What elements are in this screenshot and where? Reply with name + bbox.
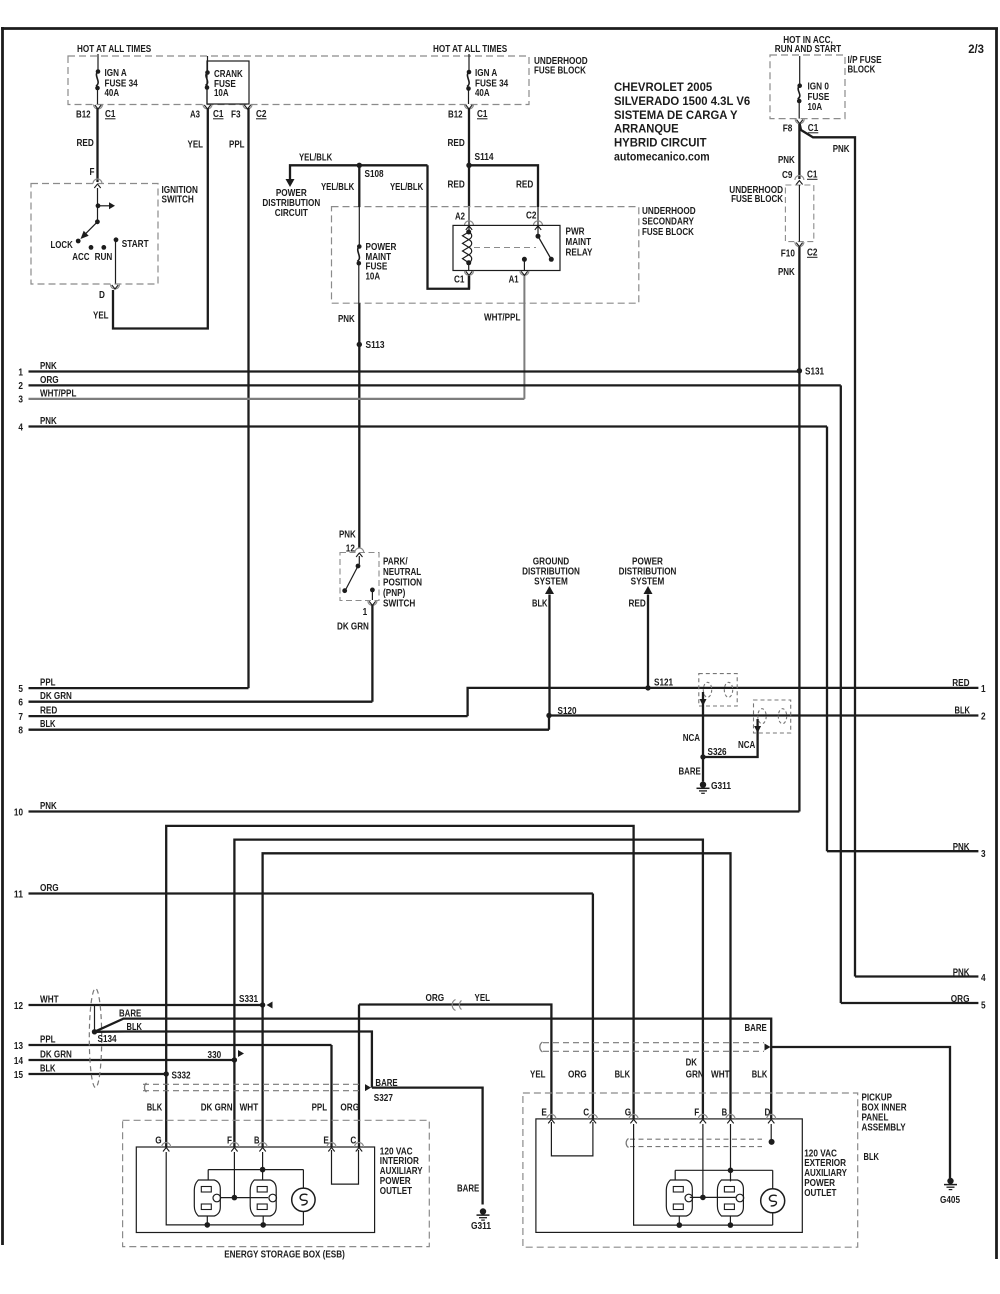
svg-text:RED: RED [40, 705, 58, 717]
svg-text:PPL: PPL [229, 139, 245, 151]
connector B12/C1 below fuse IGN A [76, 105, 116, 121]
svg-text:S131: S131 [805, 366, 824, 378]
HOT AT ALL TIMES label left [77, 43, 151, 55]
wire PNK F8 down to C9 [778, 124, 799, 179]
wire START to D [115, 240, 117, 284]
fuse IGN A FUSE 34 40A second [466, 67, 508, 104]
HOT IN ACC RUN AND START label [775, 34, 842, 55]
exterior receptacle 1 [666, 1180, 692, 1228]
pickup box inner panel dashed box [523, 1093, 858, 1247]
svg-text:BARE: BARE [119, 1007, 141, 1019]
wire NCA from BLK connector to S326 [703, 719, 761, 757]
svg-text:OUTLET: OUTLET [380, 1185, 413, 1197]
ip fuse block dashed box [770, 55, 845, 119]
svg-text:PNK: PNK [778, 266, 795, 278]
svg-text:PPL: PPL [40, 1034, 56, 1046]
interior outlet lamp [292, 1188, 315, 1211]
relay dashed actuator link [474, 247, 536, 249]
svg-text:S120: S120 [558, 705, 577, 717]
exterior outlet neutral bus [675, 1124, 773, 1189]
relay connector A1 [509, 271, 529, 286]
svg-text:1: 1 [18, 366, 23, 378]
connector pin 1 PNP switch [363, 601, 377, 618]
svg-text:10: 10 [14, 806, 23, 818]
interior outlet box [136, 1147, 374, 1233]
right wire 1 RED label [952, 677, 986, 695]
svg-text:C1: C1 [454, 274, 465, 286]
relay connector C1 [454, 263, 474, 286]
svg-text:PNK: PNK [833, 143, 850, 155]
svg-text:2: 2 [18, 380, 23, 392]
relay connector C2 [526, 210, 543, 230]
svg-text:HOT AT ALL TIMES: HOT AT ALL TIMES [433, 43, 507, 55]
wire WHT interior B to exterior B [263, 853, 731, 1119]
svg-text:BLK: BLK [40, 1063, 56, 1075]
wire 12 WHT [14, 994, 263, 1012]
GROUND DISTRIBUTION SYSTEM label and arrow [522, 556, 580, 716]
connector F3/C2 [231, 105, 267, 121]
svg-text:DK GRN: DK GRN [201, 1102, 233, 1114]
svg-text:WHT: WHT [240, 1102, 259, 1114]
svg-text:1: 1 [363, 606, 368, 618]
fuse CRANK FUSE 10A [205, 68, 243, 104]
connector C9/C1 [782, 169, 818, 185]
svg-text:DK GRN: DK GRN [40, 690, 72, 702]
svg-text:S121: S121 [654, 677, 673, 689]
connector B12/C1 below fuse 2 [448, 105, 488, 121]
svg-text:PPL: PPL [312, 1102, 328, 1114]
wire RED S114 branch to relay C2 [469, 165, 538, 236]
wire BARE S327 to ground G311 [372, 1088, 483, 1205]
title text block [614, 80, 750, 164]
svg-text:SISTEMA DE CARGA Y: SISTEMA DE CARGA Y [614, 108, 738, 122]
wire 2 ORG [18, 374, 978, 1003]
svg-text:C2: C2 [256, 108, 267, 120]
svg-text:DK GRN: DK GRN [337, 621, 369, 633]
svg-text:E: E [541, 1107, 547, 1119]
exterior outlet wire color labels [530, 1057, 768, 1081]
svg-text:F8: F8 [783, 123, 793, 135]
wire 7 RED [18, 688, 978, 723]
svg-text:2: 2 [981, 711, 986, 723]
connector F8/C1 [783, 119, 819, 134]
wire 14 DK GRN [14, 1049, 235, 1067]
wire 15 BLK [14, 1063, 166, 1081]
svg-text:SYSTEM: SYSTEM [631, 576, 665, 588]
svg-text:RELAY: RELAY [566, 246, 593, 258]
interior outlet ground bus [166, 1152, 303, 1225]
svg-text:NCA: NCA [738, 739, 756, 751]
svg-text:FUSE BLOCK: FUSE BLOCK [731, 193, 783, 205]
wire 13 PPL [14, 1034, 332, 1148]
splice S131 [797, 366, 825, 378]
svg-text:ORG: ORG [340, 1102, 359, 1114]
svg-text:F: F [227, 1135, 232, 1147]
wire YEL ignition D to fuse A3 [93, 108, 208, 329]
exterior outlet ground bus [634, 1124, 773, 1225]
exterior receptacle 2 [717, 1180, 743, 1228]
wire relay C1 down to YEL/BLK branch [468, 276, 470, 289]
wire feed into fuse IGN A 2 [468, 54, 470, 72]
PWR MAINT RELAY label [566, 225, 593, 258]
right wire 2 BLK label [955, 705, 986, 723]
svg-text:S332: S332 [172, 1070, 191, 1082]
ignition switch node with right arrow [96, 202, 115, 209]
svg-text:330: 330 [208, 1049, 222, 1061]
svg-text:RED: RED [516, 179, 534, 191]
svg-text:S327: S327 [374, 1092, 393, 1104]
relay contact to A1 [522, 257, 527, 271]
underhood secondary fuse block label [642, 205, 696, 238]
wire BLK interior G to exterior G [166, 826, 633, 1119]
underhood fuse block small dashed box [785, 185, 813, 242]
splice S332 [164, 1070, 191, 1082]
splice S113 [357, 339, 385, 351]
svg-text:ORG: ORG [568, 1069, 587, 1081]
svg-text:PNK: PNK [339, 529, 356, 541]
contact RUN [95, 245, 113, 263]
svg-text:C1: C1 [808, 122, 819, 134]
inline connector on RED wire [699, 674, 737, 706]
wire YEL/BLK horizontal with arrow to power distribution circuit [286, 152, 428, 188]
wire interior pin F riser [233, 1060, 235, 1147]
wire BARE S326 to ground G311 [679, 757, 704, 782]
wire interior pin B riser [261, 1005, 263, 1147]
splice S326 [700, 746, 726, 760]
exterior outlet lamp [761, 1189, 785, 1213]
label YEL under A3 [188, 139, 204, 151]
svg-text:BARE: BARE [745, 1022, 767, 1034]
wire YEL/BLK branch to relay C1 [428, 165, 470, 288]
svg-text:S134: S134 [98, 1033, 117, 1045]
svg-text:A1: A1 [509, 274, 519, 286]
interior receptacle 2 [250, 1180, 276, 1228]
svg-text:PPL: PPL [40, 677, 56, 689]
interior outlet neutral bus [208, 1152, 303, 1188]
splice S108 [357, 163, 384, 180]
ignition switch label [162, 184, 198, 206]
interior outlet hot bus [221, 1152, 268, 1200]
svg-text:C1: C1 [213, 108, 224, 120]
svg-text:PNK: PNK [40, 800, 57, 812]
svg-text:12: 12 [14, 1000, 23, 1012]
svg-text:PNK: PNK [338, 313, 355, 325]
wire ORG interior pin C riser [358, 1005, 360, 1148]
wire RED S114 to relay A2 [448, 165, 470, 232]
svg-text:5: 5 [981, 1000, 986, 1012]
svg-text:DK GRN: DK GRN [40, 1049, 72, 1061]
svg-text:SWITCH: SWITCH [162, 194, 194, 206]
svg-text:WHT/PPL: WHT/PPL [484, 312, 521, 324]
svg-text:6: 6 [18, 697, 23, 709]
svg-text:DK: DK [686, 1057, 698, 1069]
splice S331 [239, 993, 273, 1009]
svg-text:4: 4 [981, 972, 986, 984]
svg-text:BLOCK: BLOCK [848, 64, 876, 76]
svg-text:A3: A3 [190, 109, 200, 121]
svg-text:FUSE BLOCK: FUSE BLOCK [534, 65, 586, 77]
connector oval S134 [89, 989, 101, 1088]
connector F10/C2 [781, 242, 818, 259]
wire BLK from S134 to S327 [95, 1021, 372, 1088]
wire 4 PNK [18, 415, 978, 851]
interior outlet wire color labels [147, 1102, 359, 1114]
svg-text:PNK: PNK [40, 415, 57, 427]
svg-text:YEL/BLK: YEL/BLK [321, 181, 355, 193]
svg-text:SWITCH: SWITCH [383, 598, 415, 610]
wire DK GRN PNP to wire 6 [337, 605, 372, 702]
svg-text:RED: RED [448, 179, 466, 191]
svg-text:40A: 40A [475, 87, 490, 99]
relay switch pivot [536, 234, 551, 258]
splice S121 [645, 677, 673, 691]
svg-text:C1: C1 [477, 108, 488, 120]
svg-text:S114: S114 [475, 151, 494, 163]
svg-text:START: START [122, 238, 149, 250]
svg-text:S113: S113 [366, 339, 385, 351]
wire below power maint fuse [358, 263, 360, 303]
underhood secondary fuse block dashed box [332, 207, 639, 304]
wire 6 DK GRN [18, 690, 372, 708]
svg-text:CIRCUIT: CIRCUIT [275, 207, 309, 219]
svg-text:1: 1 [981, 683, 986, 695]
exterior outlet pin letters and connectors E C G F B D [541, 1107, 775, 1124]
ground G311 upper [697, 780, 732, 793]
svg-text:C9: C9 [782, 169, 793, 181]
wire RED fuse2 to S114 [448, 108, 470, 165]
right wire 3 PNK label [953, 841, 986, 860]
svg-text:BLK: BLK [40, 718, 56, 730]
svg-text:ARRANQUE: ARRANQUE [614, 122, 679, 136]
svg-text:YEL/BLK: YEL/BLK [299, 152, 333, 164]
inline connector on BLK wire [754, 700, 791, 733]
wire PNK S113 down to PNP switch [339, 345, 359, 555]
svg-text:G311: G311 [711, 780, 731, 792]
ignition switch dashed box [31, 184, 158, 285]
svg-text:WHT/PPL: WHT/PPL [40, 387, 77, 399]
svg-text:14: 14 [14, 1055, 23, 1067]
svg-text:NCA: NCA [683, 732, 701, 744]
svg-text:RED: RED [952, 677, 970, 689]
fuse IGN 0 FUSE 10A [797, 81, 829, 119]
exterior outlet hot bus [690, 1124, 736, 1200]
wire 10 PNK [14, 800, 800, 818]
wire feed into fuse IGN 0 [799, 56, 801, 86]
svg-text:F3: F3 [231, 109, 241, 121]
relay coil [463, 230, 472, 266]
svg-text:B12: B12 [448, 109, 463, 121]
svg-text:RED: RED [77, 137, 95, 149]
splice S114 [466, 151, 493, 168]
ip fuse block label [848, 54, 882, 76]
fuse IGN A FUSE 34 40A [95, 67, 138, 104]
ignition switch pivot node [95, 219, 100, 224]
svg-text:ACC: ACC [72, 251, 90, 263]
svg-text:BLK: BLK [615, 1069, 631, 1081]
underhood fuse block small label [729, 184, 783, 205]
wire BARE to ground G405 [745, 1022, 951, 1178]
svg-text:S331: S331 [239, 993, 258, 1005]
svg-text:SILVERADO 1500 4.3L V6: SILVERADO 1500 4.3L V6 [614, 94, 750, 108]
svg-text:10A: 10A [808, 101, 823, 113]
svg-text:BLK: BLK [864, 1151, 880, 1163]
connector pin 12 PNP switch [355, 548, 364, 557]
wire 5 PPL [18, 677, 248, 695]
svg-text:C1: C1 [105, 108, 116, 120]
svg-text:11: 11 [14, 888, 23, 900]
svg-text:5: 5 [18, 683, 23, 695]
svg-text:8: 8 [18, 725, 23, 737]
svg-text:YEL: YEL [188, 139, 204, 151]
wire YEL/BLK S108 down to power maint fuse [358, 165, 360, 246]
svg-text:CHEVROLET 2005: CHEVROLET 2005 [614, 80, 712, 94]
splice S120 [546, 705, 576, 718]
svg-text:A2: A2 [455, 211, 465, 223]
svg-text:YEL: YEL [93, 310, 109, 322]
wire PNK F10 down to wire 10 [778, 247, 799, 812]
underhood fuse block label [534, 55, 588, 77]
label YEL/BLK left of maint fuse wire [321, 181, 355, 193]
svg-text:F: F [90, 166, 95, 178]
svg-text:YEL: YEL [475, 992, 491, 1004]
svg-text:BLK: BLK [752, 1069, 768, 1081]
exterior outlet box [536, 1119, 802, 1233]
svg-text:C2: C2 [526, 210, 537, 222]
wire interior pin G riser [165, 1074, 167, 1147]
wire 11 ORG [14, 882, 593, 1119]
svg-text:BARE: BARE [679, 766, 701, 778]
contact ACC [72, 245, 93, 263]
svg-text:7: 7 [18, 711, 23, 723]
120 VAC EXTERIOR AUXILIARY POWER OUTLET label [804, 1147, 847, 1199]
label YEL/BLK right branch [390, 181, 424, 193]
POWER DISTRIBUTION SYSTEM label and arrow [619, 556, 677, 688]
splice symbol on ORG YEL wire [452, 1000, 461, 1011]
svg-text:HOT AT ALL TIMES: HOT AT ALL TIMES [77, 43, 151, 55]
svg-text:RUN AND START: RUN AND START [775, 43, 842, 55]
svg-text:G: G [155, 1135, 161, 1147]
relay connector A2 [455, 211, 474, 230]
svg-text:RED: RED [629, 598, 647, 610]
contact START [114, 237, 149, 250]
wire BARE from S134 [95, 1007, 772, 1047]
svg-text:10A: 10A [366, 270, 381, 282]
svg-text:GRN: GRN [686, 1069, 704, 1081]
page number 2/3 [968, 42, 984, 56]
wire WHT/PPL relay A1 down [484, 276, 524, 399]
svg-text:ORG: ORG [426, 992, 445, 1004]
svg-text:D: D [99, 289, 105, 301]
svg-text:WHT: WHT [40, 994, 59, 1006]
svg-text:PNK: PNK [40, 360, 57, 372]
svg-text:13: 13 [14, 1040, 23, 1052]
connector D ignition switch [99, 285, 120, 302]
wire PNK below secondary fuse block [338, 303, 359, 344]
svg-text:3: 3 [981, 848, 986, 860]
ignition switch blade to LOCK [81, 222, 98, 239]
wire feed into crank fuse [207, 56, 209, 73]
svg-text:3: 3 [18, 394, 23, 406]
svg-text:C: C [350, 1135, 356, 1147]
svg-text:ORG: ORG [40, 882, 59, 894]
svg-text:YEL: YEL [530, 1069, 546, 1081]
right wire 5 ORG label [951, 993, 986, 1012]
shield drain dashed exterior harness [540, 1042, 771, 1052]
splice 330 [208, 1049, 245, 1063]
PNP switch internal [342, 556, 374, 600]
svg-text:SYSTEM: SYSTEM [534, 576, 568, 588]
svg-text:BARE: BARE [457, 1183, 479, 1195]
svg-text:LOCK: LOCK [51, 239, 74, 251]
svg-text:4: 4 [18, 421, 23, 433]
120 VAC INTERIOR AUXILIARY POWER OUTLET label [380, 1145, 423, 1197]
svg-text:C1: C1 [807, 169, 818, 181]
svg-text:C2: C2 [807, 247, 818, 259]
svg-text:10A: 10A [214, 87, 229, 99]
svg-text:ORG: ORG [951, 993, 970, 1005]
interior E-C loop [332, 1150, 359, 1184]
interior outlet pin letters and connectors G F B E C [155, 1135, 363, 1152]
fuse POWER MAINT FUSE 10A [357, 241, 397, 282]
wire DK GRN interior F to exterior F [234, 840, 703, 1119]
svg-text:G311: G311 [471, 1220, 491, 1232]
wire feed into fuse IGN A [97, 54, 99, 72]
svg-text:BLK: BLK [955, 705, 971, 717]
HOT AT ALL TIMES label right [433, 43, 507, 55]
svg-text:G405: G405 [940, 1194, 960, 1206]
ground G311 lower [471, 1208, 491, 1232]
interior receptacle 1 [194, 1180, 220, 1228]
park neutral position switch dashed box [340, 553, 379, 601]
crank fuse inner box [207, 61, 249, 104]
exterior inner shield drain [626, 1124, 774, 1148]
svg-text:PNK: PNK [953, 841, 970, 853]
svg-text:PNK: PNK [778, 154, 795, 166]
svg-text:RUN: RUN [95, 251, 113, 263]
shield S327 dashed drain [143, 1083, 371, 1092]
svg-text:FUSE BLOCK: FUSE BLOCK [642, 226, 694, 238]
wire PPL C2 down to wire 5 [229, 108, 249, 688]
svg-text:YEL/BLK: YEL/BLK [390, 181, 424, 193]
POWER DISTRIBUTION CIRCUIT label [262, 187, 320, 219]
wire PNK F8 branch right [800, 124, 855, 977]
svg-text:BLK: BLK [532, 598, 548, 610]
svg-text:WHT: WHT [711, 1069, 730, 1081]
svg-text:ORG: ORG [40, 374, 59, 386]
wire ORG YEL from interior C to exterior E [359, 992, 551, 1119]
svg-text:ASSEMBLY: ASSEMBLY [862, 1122, 906, 1134]
svg-text:S108: S108 [365, 168, 384, 180]
svg-text:BLK: BLK [127, 1021, 143, 1033]
svg-text:F10: F10 [781, 248, 795, 260]
svg-text:2/3: 2/3 [968, 42, 984, 56]
svg-text:BLK: BLK [147, 1102, 163, 1114]
svg-text:15: 15 [14, 1069, 23, 1081]
wire through underhood fuse block [798, 185, 800, 242]
connector F ignition switch [93, 179, 102, 188]
connector A3/C1 below crank fuse [190, 105, 224, 121]
wire RED fuse1 to ignition switch F [77, 108, 98, 182]
pwr maint relay box [453, 225, 560, 270]
relay switch blade contact [549, 257, 554, 262]
exterior E-C loop [551, 1122, 593, 1156]
splice S134 [92, 1005, 117, 1045]
energy storage box dashed box [123, 1120, 430, 1246]
S327 labels [374, 1077, 398, 1104]
PICKUP BOX INNER PANEL ASSEMBLY label [862, 1092, 907, 1134]
contact LOCK [51, 239, 81, 251]
ENERGY STORAGE BOX label [224, 1249, 345, 1261]
